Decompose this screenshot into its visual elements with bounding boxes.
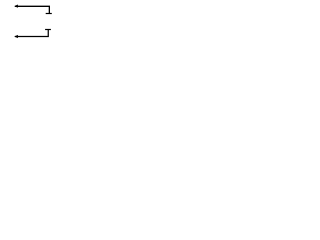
arrow A shaft with bend [15, 6, 49, 13]
arrow B shaft with bend [15, 30, 48, 37]
arrow A head [14, 5, 18, 8]
arrow B head [14, 35, 18, 38]
arrow B tack bar [45, 29, 51, 31]
arrow A tack bar [46, 13, 52, 15]
